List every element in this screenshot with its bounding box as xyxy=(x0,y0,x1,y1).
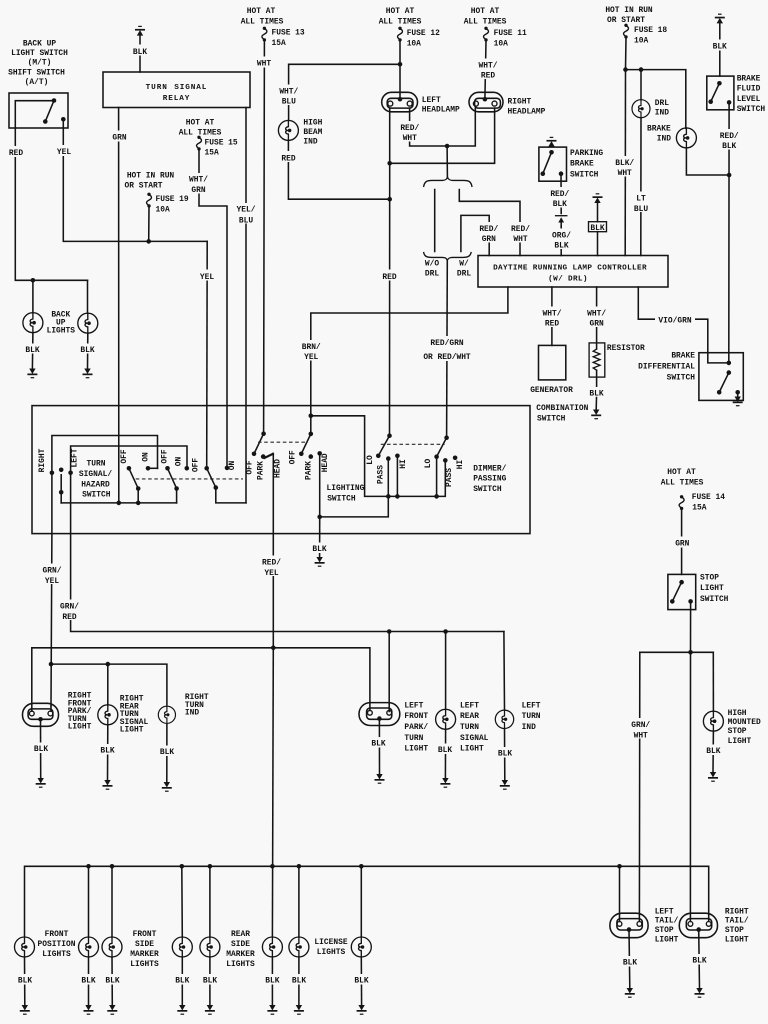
wire to back up lamp 2 xyxy=(87,280,89,313)
svg-text:BRAKE: BRAKE xyxy=(671,351,695,360)
dimmer contact HI1 + wire to rail xyxy=(395,454,400,499)
hazard contact OFF1 xyxy=(127,466,132,471)
svg-text:BLK: BLK xyxy=(722,142,736,151)
brace upper right leg to DRL controller RED/WHT xyxy=(459,190,532,256)
node: RED feed to back up lamp 1 xyxy=(31,278,36,283)
node right rear turn branch xyxy=(106,662,111,667)
wire boxed BLK to DRL controller xyxy=(597,232,599,256)
lighting contact OFF g1 xyxy=(252,452,257,457)
wire RED/WHT headlamp high-beam link xyxy=(398,112,475,146)
svg-text:OFF: OFF xyxy=(160,449,169,463)
parking brake switch xyxy=(539,147,567,181)
hazard dashed link xyxy=(136,478,243,480)
svg-text:IND: IND xyxy=(522,723,536,732)
svg-text:FUSE 11: FUSE 11 xyxy=(494,29,527,38)
generator xyxy=(539,345,566,380)
svg-text:W/: W/ xyxy=(459,259,469,268)
wire to back up lamp 1 xyxy=(32,280,34,312)
DRL ind bulb xyxy=(632,100,650,118)
hazard contact OFF3 xyxy=(204,466,209,471)
svg-text:IND: IND xyxy=(303,137,317,146)
ground bottom bulb 6 xyxy=(267,1005,277,1015)
front side marker lights label xyxy=(130,930,159,969)
svg-text:SWITCH: SWITCH xyxy=(327,495,356,504)
svg-text:10A: 10A xyxy=(407,39,421,48)
svg-text:SWITCH: SWITCH xyxy=(737,105,766,114)
node GRN/YEL on right-turn bus xyxy=(49,662,54,667)
wire BLK right rear turn xyxy=(97,725,118,780)
svg-text:LIGHTS: LIGHTS xyxy=(47,327,76,336)
front side marker bulb 2 xyxy=(172,937,192,957)
hazard contact ON2 xyxy=(185,466,190,471)
lighting thick arm PARK-HEAD xyxy=(263,453,275,460)
hazard contact OFF2 xyxy=(165,466,170,471)
svg-text:BLK: BLK xyxy=(354,977,368,986)
fuse 15 feed: HOT AT ALL TIMES xyxy=(179,119,238,158)
svg-text:RIGHT: RIGHT xyxy=(725,907,749,916)
wire BLK below resistor xyxy=(586,387,607,410)
DRL ind label xyxy=(655,99,669,117)
svg-text:HEADLAMP: HEADLAMP xyxy=(508,108,546,117)
combination switch label xyxy=(536,404,588,424)
svg-text:GENERATOR: GENERATOR xyxy=(530,386,573,395)
wire RIGHT contact feed to hazard ON1 xyxy=(52,436,158,534)
right tail/stop light label xyxy=(725,907,749,944)
svg-text:HOT AT: HOT AT xyxy=(386,7,415,16)
wire BLK left rear turn xyxy=(435,729,456,778)
left tail/stop light xyxy=(610,913,648,938)
fuse 12 feed: HOT AT ALL TIMES xyxy=(379,7,440,48)
svg-text:PASS: PASS xyxy=(376,465,385,484)
daytime running lamp controller (W/ DRL) xyxy=(478,256,668,288)
hazard contact ON4 xyxy=(225,466,230,471)
svg-text:LEFT: LEFT xyxy=(460,701,479,710)
wire to high mounted stop light xyxy=(712,652,714,711)
svg-text:GRN: GRN xyxy=(191,186,205,195)
wire WHT from fuse 13 to lighting switch xyxy=(253,41,276,434)
back up light switch label xyxy=(8,40,68,88)
node bus b4 xyxy=(180,864,185,869)
wire BLK right turn ind xyxy=(157,725,178,782)
fuse 18 feed: HOT IN RUN OR START xyxy=(605,6,667,45)
svg-text:HOT AT: HOT AT xyxy=(471,7,500,16)
node left rear turn branch xyxy=(443,629,448,634)
svg-text:PARK/: PARK/ xyxy=(404,723,428,732)
node high-beam link / brace feed xyxy=(445,144,450,149)
wire BLK right front lamp xyxy=(31,719,52,778)
svg-text:BRAKE: BRAKE xyxy=(647,124,671,133)
rear side marker bulb 2 xyxy=(262,937,282,957)
svg-text:(W/ DRL): (W/ DRL) xyxy=(548,275,588,283)
park feed line to right front lamp xyxy=(32,648,370,711)
svg-text:BLK/: BLK/ xyxy=(615,159,634,168)
ground right tail xyxy=(695,988,705,998)
svg-text:RED/: RED/ xyxy=(720,132,739,141)
svg-text:FRONT: FRONT xyxy=(404,712,428,721)
left rear turn signal bulb xyxy=(436,709,456,729)
node RED/YEL on park feed xyxy=(271,646,276,651)
svg-text:TAIL/: TAIL/ xyxy=(725,917,749,926)
ground above brake fluid level switch xyxy=(709,14,731,77)
dimmer dashed link xyxy=(381,443,445,445)
wire WHT/GRN to resistor xyxy=(585,287,610,349)
svg-text:DRL: DRL xyxy=(425,269,439,278)
lighting switch arm 2 xyxy=(301,434,311,454)
wire BLK bottom bulb 5 xyxy=(200,957,221,1005)
svg-text:BLK: BLK xyxy=(713,43,727,52)
lighting contact PARK g2 xyxy=(309,454,314,459)
hazard neutral arm xyxy=(59,468,64,503)
wire from node to brace xyxy=(446,146,448,177)
hazard rail xyxy=(61,502,176,504)
wire bus to b4 xyxy=(181,866,184,937)
wire BLK high mounted stop xyxy=(703,731,724,772)
lighting switch group1 feed node xyxy=(261,431,266,436)
svg-text:HEAD: HEAD xyxy=(321,453,330,472)
svg-text:BLK: BLK xyxy=(312,545,326,554)
ground below combination switch xyxy=(315,557,325,567)
wire BLK/WHT to DRL controller xyxy=(614,70,638,256)
svg-text:RED: RED xyxy=(382,273,396,282)
svg-text:OR RED/WHT: OR RED/WHT xyxy=(423,353,471,362)
svg-text:WHT: WHT xyxy=(403,134,417,143)
svg-text:LEVEL: LEVEL xyxy=(737,95,761,104)
svg-text:GRN/: GRN/ xyxy=(60,602,79,611)
svg-text:(M/T): (M/T) xyxy=(28,59,52,68)
svg-text:WHT: WHT xyxy=(634,731,648,740)
svg-text:HOT AT: HOT AT xyxy=(667,468,696,477)
svg-text:LO: LO xyxy=(424,459,433,469)
svg-text:FUSE 18: FUSE 18 xyxy=(634,26,667,35)
svg-text:ON: ON xyxy=(228,461,237,471)
wire WHT/RED to generator xyxy=(540,287,565,345)
svg-text:BLK: BLK xyxy=(18,977,32,986)
svg-text:WHT/: WHT/ xyxy=(479,61,498,70)
svg-text:BLK: BLK xyxy=(623,959,637,968)
right turn ind label xyxy=(185,693,209,718)
svg-text:HEAD: HEAD xyxy=(273,459,282,478)
lighting switch group2 feed xyxy=(309,416,314,436)
svg-text:SIDE: SIDE xyxy=(231,940,250,949)
svg-text:FUSE 13: FUSE 13 xyxy=(272,28,305,37)
boxed BLK label xyxy=(589,222,607,234)
right rear turn signal bulb xyxy=(98,705,118,725)
wire BLK bottom bulb 7 xyxy=(289,957,310,1005)
svg-text:HI: HI xyxy=(456,460,465,470)
stop branch rail xyxy=(640,651,714,653)
svg-text:SWITCH: SWITCH xyxy=(667,373,696,382)
svg-text:OFF: OFF xyxy=(192,458,201,472)
wire RED from high beam ind xyxy=(277,140,390,199)
svg-text:BLU: BLU xyxy=(282,98,296,107)
wire to left front lamp turn filament xyxy=(388,632,390,712)
left headlamp xyxy=(382,92,418,112)
svg-text:BLU: BLU xyxy=(239,216,253,225)
svg-text:BLK: BLK xyxy=(553,200,567,209)
svg-text:15A: 15A xyxy=(272,39,286,48)
ground bottom bulb 8 xyxy=(357,1005,367,1015)
node bus b2 xyxy=(86,864,91,869)
stop light switch xyxy=(668,574,696,609)
wire RED/YEL from lighting switch head contact xyxy=(261,453,285,647)
brake fluid level switch xyxy=(707,76,734,110)
svg-text:RED: RED xyxy=(281,154,295,163)
svg-text:LIGHT: LIGHT xyxy=(120,726,144,735)
wire BLK back up lamp 2 xyxy=(77,333,98,368)
svg-text:BLK: BLK xyxy=(438,746,452,755)
back up lights label xyxy=(47,311,76,336)
fuse 19 xyxy=(147,193,152,208)
svg-text:BLU: BLU xyxy=(634,205,648,214)
ground bottom bulb 5 xyxy=(205,1005,215,1015)
wire GRN fuse 14 to stop light switch xyxy=(670,510,694,575)
wire ORG/BLK to DRL controller xyxy=(549,227,574,256)
hazard arm 3 to YEL/BLU xyxy=(207,468,246,503)
svg-text:GRN: GRN xyxy=(482,235,496,244)
wire fuse 18 to junction xyxy=(625,38,628,70)
svg-text:FRONT: FRONT xyxy=(45,930,69,939)
svg-text:BLK: BLK xyxy=(133,48,147,57)
back up lamp 1 xyxy=(23,313,43,333)
lighting contact PARK g1 xyxy=(261,454,266,459)
lighting contact OFF g2 xyxy=(299,452,304,457)
svg-text:SWITCH: SWITCH xyxy=(537,415,566,424)
svg-text:COMBINATION: COMBINATION xyxy=(536,404,588,413)
wire BLK bottom bulb 3 xyxy=(102,957,123,1005)
wire BLK left tail xyxy=(620,930,641,988)
svg-text:IND: IND xyxy=(655,109,669,118)
svg-text:15A: 15A xyxy=(205,149,219,158)
svg-text:HEADLAMP: HEADLAMP xyxy=(422,105,460,114)
wire YEL down to combination switch xyxy=(196,241,218,467)
brace lower xyxy=(424,253,471,261)
dimmer contact PASS1 xyxy=(386,456,391,461)
svg-text:BLK: BLK xyxy=(34,745,48,754)
svg-text:BACK UP: BACK UP xyxy=(23,40,56,49)
front position lights bulb 2 xyxy=(79,937,99,957)
svg-text:HIGH: HIGH xyxy=(728,709,747,718)
wire headlamp low-beam link xyxy=(387,112,494,166)
fuse 19 feed: HOT IN RUN OR START xyxy=(125,172,189,215)
node stop branch xyxy=(688,650,693,655)
node LEFT contact xyxy=(68,471,73,476)
fuse 12 xyxy=(398,27,403,42)
back up light switch (M/T) / shift switch (A/T) xyxy=(9,93,68,128)
svg-text:RIGHT: RIGHT xyxy=(508,98,532,107)
svg-text:HOT IN RUN: HOT IN RUN xyxy=(127,172,175,181)
node BRN/YEL branch xyxy=(309,414,314,419)
svg-text:DIFFERENTIAL: DIFFERENTIAL xyxy=(638,363,695,372)
svg-text:LIGHT: LIGHT xyxy=(725,935,749,944)
svg-text:REAR: REAR xyxy=(231,930,250,939)
svg-text:RED: RED xyxy=(545,320,559,329)
svg-text:PARKING: PARKING xyxy=(570,149,603,158)
svg-text:LO: LO xyxy=(366,455,375,465)
wire branch rail to brake ind xyxy=(626,70,686,129)
ground left tail xyxy=(625,988,635,998)
svg-text:BLK: BLK xyxy=(692,957,706,966)
wire BLK bottom bulb 2 xyxy=(78,957,99,1005)
svg-text:MOUNTED: MOUNTED xyxy=(728,718,761,727)
node bus RED/YEL xyxy=(270,864,275,869)
svg-text:BLK: BLK xyxy=(100,747,114,756)
hazard arm 1 xyxy=(129,468,141,503)
svg-text:LEFT: LEFT xyxy=(522,701,541,710)
svg-text:WHT/: WHT/ xyxy=(587,309,606,318)
ground above parking brake switch xyxy=(547,137,557,147)
high mounted stop light label xyxy=(728,709,761,746)
svg-text:WHT/: WHT/ xyxy=(189,176,208,185)
svg-text:IND: IND xyxy=(657,134,671,143)
svg-text:PASS: PASS xyxy=(445,468,454,487)
wire stop light switch output xyxy=(690,601,692,652)
svg-text:YEL: YEL xyxy=(304,353,318,362)
wire bus to b8 xyxy=(360,866,362,937)
svg-text:HOT AT: HOT AT xyxy=(247,7,276,16)
rear side marker lights label xyxy=(226,930,255,969)
svg-text:LIGHTS: LIGHTS xyxy=(226,960,255,969)
svg-text:PARK: PARK xyxy=(256,461,265,480)
wire WHT/BLU rail to high beam ind xyxy=(276,62,402,120)
stop light switch label xyxy=(700,573,729,604)
svg-text:FUSE 15: FUSE 15 xyxy=(205,138,238,147)
svg-text:RED/: RED/ xyxy=(479,225,498,234)
lighting switch label xyxy=(327,484,365,504)
svg-text:BLK: BLK xyxy=(160,748,174,757)
ground bottom bulb 4 xyxy=(177,1005,187,1015)
wire RED/GRN OR RED/WHT from brace to dimmer xyxy=(423,261,471,438)
node DRL ind branch xyxy=(639,67,644,72)
svg-text:LT: LT xyxy=(636,194,646,203)
svg-text:ON: ON xyxy=(141,452,150,462)
left tail/stop light label xyxy=(655,907,679,944)
svg-text:VIO/GRN: VIO/GRN xyxy=(658,316,691,325)
svg-text:TURN: TURN xyxy=(404,734,423,743)
svg-text:BRAKE: BRAKE xyxy=(737,75,761,84)
brake differential switch xyxy=(699,353,743,401)
svg-text:BRAKE: BRAKE xyxy=(570,160,594,169)
ground back up lamp 1 xyxy=(27,369,37,379)
wire to left rear turn bulb xyxy=(445,632,447,710)
dimmer arm 1 xyxy=(378,436,389,456)
ground back up lamp 2 xyxy=(83,369,93,379)
W/O DRL label xyxy=(425,259,439,278)
svg-text:10A: 10A xyxy=(634,36,648,45)
parking brake switch label xyxy=(570,149,603,180)
svg-text:LIGHT SWITCH: LIGHT SWITCH xyxy=(11,49,68,58)
svg-text:WHT: WHT xyxy=(513,235,527,244)
svg-text:RED/GRN: RED/GRN xyxy=(430,339,463,348)
svg-text:(A/T): (A/T) xyxy=(25,78,49,87)
wire bus to b7 xyxy=(298,866,300,937)
svg-text:STOP: STOP xyxy=(728,727,747,736)
svg-text:BLK: BLK xyxy=(706,747,720,756)
right headlamp xyxy=(469,92,503,112)
high beam ind bulb xyxy=(278,120,298,140)
node fuse19/YEL xyxy=(146,239,151,244)
dimmer/passing switch label xyxy=(473,464,506,494)
hazard contact ON1 xyxy=(146,466,151,471)
wire to right rear turn bulb xyxy=(107,664,109,705)
left turn ind label xyxy=(522,701,541,732)
hazard arm 2 xyxy=(168,468,179,503)
svg-text:OFF: OFF xyxy=(245,460,254,474)
brake ind bulb xyxy=(676,128,696,148)
svg-text:ALL TIMES: ALL TIMES xyxy=(379,18,422,27)
svg-text:RIGHT: RIGHT xyxy=(38,448,47,472)
ground right turn ind xyxy=(162,782,172,792)
svg-text:MARKER: MARKER xyxy=(226,950,255,959)
svg-text:FUSE 14: FUSE 14 xyxy=(692,493,725,502)
wire LEFT contact feed via switch top edge to hazard ON2 xyxy=(71,446,187,534)
svg-text:STOP: STOP xyxy=(700,573,719,582)
ground left turn ind xyxy=(500,780,510,790)
wire GRN/YEL right turn feed xyxy=(40,534,65,706)
brake fluid level switch label xyxy=(737,75,766,115)
svg-text:IND: IND xyxy=(185,709,199,718)
svg-text:RED: RED xyxy=(62,613,76,622)
fuse 13 feed: HOT AT ALL TIMES xyxy=(241,7,305,48)
node fuse 18 branch xyxy=(623,67,628,72)
svg-text:ORG/: ORG/ xyxy=(552,231,571,240)
svg-text:OFF: OFF xyxy=(288,450,297,464)
dimmer group2 feed node xyxy=(444,435,449,440)
svg-text:HAZARD: HAZARD xyxy=(81,480,110,489)
wire BLK left front lamp xyxy=(368,719,389,774)
svg-text:FUSE 19: FUSE 19 xyxy=(156,195,189,204)
svg-text:LEFT: LEFT xyxy=(404,701,423,710)
wire link HEAD-BLK to dimmer pass xyxy=(320,460,389,517)
svg-text:WHT/: WHT/ xyxy=(279,87,298,96)
high beam ind label xyxy=(303,119,322,147)
turn signal relay xyxy=(103,72,250,108)
high mounted stop light bulb xyxy=(703,711,723,731)
svg-text:DAYTIME RUNNING LAMP CONTROLLE: DAYTIME RUNNING LAMP CONTROLLER xyxy=(493,264,647,272)
ground bottom bulb 3 xyxy=(107,1005,117,1015)
wire YEL from back up switch xyxy=(52,119,207,241)
svg-text:SHIFT SWITCH: SHIFT SWITCH xyxy=(8,69,65,78)
node RED/BLK xyxy=(727,173,732,178)
svg-text:10A: 10A xyxy=(494,39,508,48)
svg-text:LIGHTING: LIGHTING xyxy=(327,484,365,493)
left front park/turn light xyxy=(359,703,400,726)
svg-text:RED/: RED/ xyxy=(511,225,530,234)
resistor xyxy=(589,343,605,396)
wire BLK right tail xyxy=(689,930,710,988)
svg-text:RELAY: RELAY xyxy=(163,95,191,103)
right rear turn signal label xyxy=(120,695,149,735)
svg-text:LICENSE: LICENSE xyxy=(314,938,347,947)
dimmer contact LO2 + wire to rail xyxy=(434,454,439,498)
svg-text:YEL: YEL xyxy=(264,569,278,578)
svg-text:WHT/: WHT/ xyxy=(543,309,562,318)
node RIGHT contact xyxy=(50,471,55,476)
fuse 14 feed: HOT AT ALL TIMES xyxy=(661,468,726,512)
svg-text:PARK: PARK xyxy=(305,461,314,480)
svg-text:SIGNAL/: SIGNAL/ xyxy=(79,470,112,479)
left front park/turn light label xyxy=(404,701,428,753)
ground right front lamp xyxy=(36,778,46,788)
wire YEL/BLU from relay xyxy=(234,108,259,503)
wire BLK bottom bulb 4 xyxy=(172,957,193,1005)
wire DRL controller output to BRN/YEL xyxy=(299,287,508,416)
right turn ind bulb xyxy=(158,706,175,723)
svg-text:15A: 15A xyxy=(692,504,706,513)
svg-text:BLK: BLK xyxy=(554,242,568,251)
svg-text:BRN/: BRN/ xyxy=(302,343,321,352)
wire RED from back up switch xyxy=(6,128,88,280)
combination switch box xyxy=(32,406,530,534)
